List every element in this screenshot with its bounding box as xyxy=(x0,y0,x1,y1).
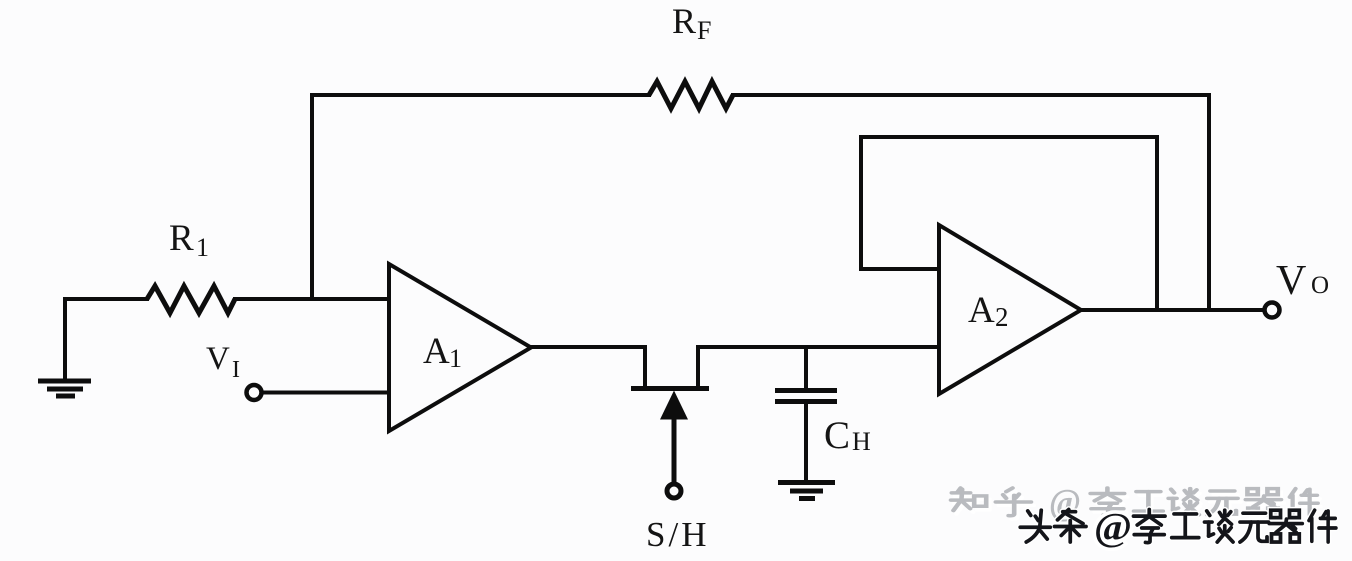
svg-text:1: 1 xyxy=(449,344,462,373)
svg-text:V: V xyxy=(1276,258,1306,304)
svg-text:A: A xyxy=(423,331,450,372)
svg-text:R: R xyxy=(169,218,194,259)
svg-text:F: F xyxy=(697,16,711,45)
svg-text:H: H xyxy=(852,427,871,456)
svg-text:1: 1 xyxy=(196,233,209,262)
svg-text:S/H: S/H xyxy=(646,515,709,554)
svg-text:O: O xyxy=(1311,272,1329,299)
svg-text:C: C xyxy=(824,414,850,457)
svg-text:@: @ xyxy=(1094,506,1132,549)
svg-text:I: I xyxy=(232,357,240,383)
svg-text:2: 2 xyxy=(995,302,1009,332)
svg-text:A: A xyxy=(968,290,995,331)
svg-text:R: R xyxy=(672,1,696,41)
svg-text:V: V xyxy=(206,341,230,377)
